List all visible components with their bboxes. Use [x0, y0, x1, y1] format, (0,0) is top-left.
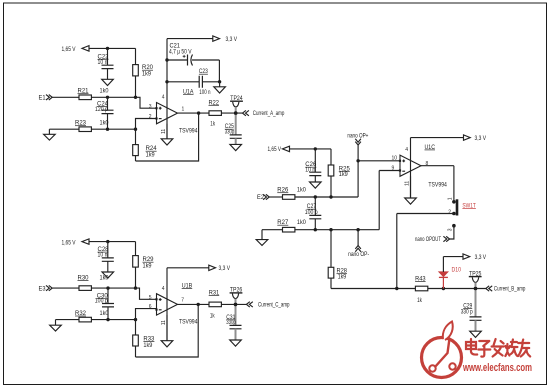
- svg-text:6: 6: [149, 304, 152, 310]
- node junction A1: [106, 47, 109, 50]
- resistor R27: [277, 220, 306, 232]
- capacitor C27: [305, 197, 322, 230]
- resistor R20: [133, 48, 154, 97]
- node junction C5: [329, 228, 332, 231]
- node junction B2: [106, 286, 109, 289]
- capacitor C26: [305, 149, 321, 182]
- wire output U1C to switch: [421, 166, 454, 200]
- capacitor C22: [98, 48, 114, 79]
- supply flag 1,65 V (C): [268, 146, 290, 153]
- connector Current_B_amp: [486, 286, 526, 293]
- svg-text:10: 10: [392, 155, 398, 161]
- svg-text:1k9: 1k9: [339, 172, 349, 178]
- svg-text:1k9: 1k9: [143, 343, 153, 349]
- svg-text:5: 5: [149, 295, 152, 301]
- svg-text:nano OPOUT: nano OPOUT: [415, 237, 441, 243]
- capacitor C31: [226, 304, 241, 340]
- svg-text:TSV994: TSV994: [428, 183, 447, 189]
- svg-text:4: 4: [162, 286, 165, 292]
- wire 1.65V rail B: [89, 241, 136, 243]
- supply flag 3,3 V (B): [209, 265, 230, 272]
- wire R31 to output: [221, 303, 246, 305]
- connector Current_C_amp: [246, 302, 290, 309]
- svg-text:3: 3: [149, 104, 152, 110]
- node junction C2: [314, 195, 317, 198]
- svg-text:1: 1: [182, 107, 185, 113]
- node junction B1: [106, 240, 109, 243]
- svg-text:4,7 µ 50 V: 4,7 µ 50 V: [169, 49, 192, 55]
- svg-text:120 p: 120 p: [95, 107, 109, 113]
- wire switch pin2 feedback: [397, 214, 454, 289]
- connector E3: [39, 285, 53, 292]
- wire gnd to R27: [262, 229, 283, 231]
- connector nano OPOUT: [415, 236, 450, 243]
- node junction B-out: [197, 303, 200, 306]
- wire pin4 / 3.3V rail A: [167, 39, 213, 139]
- svg-text:C21: C21: [170, 43, 181, 49]
- node junction TP25: [474, 287, 477, 290]
- svg-text:4: 4: [405, 147, 408, 153]
- wire R23 to node: [91, 128, 135, 130]
- ground at U1C: [405, 198, 417, 204]
- ground under C22: [102, 79, 114, 85]
- svg-text:3,3 V: 3,3 V: [219, 266, 231, 272]
- node junction C23-right: [218, 80, 221, 83]
- ground at C25: [230, 144, 242, 150]
- node junction A3: [134, 96, 137, 99]
- node junction C4: [314, 228, 317, 231]
- svg-text:1k9: 1k9: [338, 274, 347, 280]
- connector Current_A_amp: [243, 110, 285, 117]
- node junction TP26 dot: [234, 303, 238, 307]
- svg-text:nano OP-: nano OP-: [348, 252, 369, 258]
- svg-text:100 p: 100 p: [305, 210, 319, 216]
- wire E3 to R30: [52, 287, 79, 289]
- resistor R24: [133, 129, 158, 161]
- node junction C6: [356, 228, 359, 231]
- svg-text:100 p: 100 p: [95, 299, 109, 305]
- wire D10 to 3.3V: [443, 257, 463, 272]
- watermark text chinese: [466, 339, 530, 357]
- svg-text:100 n: 100 n: [199, 90, 210, 96]
- resistor R22: [209, 100, 222, 127]
- ground at U1A: [161, 139, 173, 145]
- node junction TP24: [234, 111, 237, 114]
- node junction B4: [106, 318, 109, 321]
- svg-text:3,3 V: 3,3 V: [226, 37, 238, 43]
- svg-text:10 n: 10 n: [98, 253, 108, 259]
- svg-text:1k: 1k: [210, 314, 216, 320]
- wire E2 to R26: [269, 196, 282, 198]
- resistor R29: [133, 242, 154, 289]
- resistor R28: [328, 230, 347, 289]
- switch SW1T: [447, 197, 476, 231]
- node junction C23-left: [165, 80, 168, 83]
- connector E1: [39, 95, 53, 102]
- supply flag 3,3 V (D10): [463, 254, 486, 261]
- test point TP26: [230, 288, 243, 305]
- svg-text:2: 2: [448, 210, 451, 216]
- svg-text:1,65 V: 1,65 V: [62, 240, 76, 246]
- wire riser to pin 10: [358, 160, 400, 162]
- svg-text:E3: E3: [39, 287, 47, 293]
- wire gnd to R23: [49, 128, 79, 130]
- svg-text:Current_A_amp: Current_A_amp: [253, 111, 285, 117]
- capacitor C24: [95, 97, 114, 129]
- node junction A5: [134, 128, 137, 131]
- svg-text:D10: D10: [452, 268, 462, 274]
- node junction TP26: [234, 303, 237, 306]
- wire switch pin3: [449, 226, 454, 239]
- resistor R32: [75, 311, 109, 322]
- svg-text:9: 9: [392, 166, 395, 172]
- svg-text:1k9: 1k9: [143, 264, 153, 270]
- ground under C28: [102, 272, 114, 278]
- svg-text:1,65 V: 1,65 V: [268, 147, 282, 153]
- ground at C29: [470, 331, 482, 337]
- connector nano OP+: [347, 134, 368, 161]
- wire to pin 6: [136, 309, 157, 320]
- resistor R25: [328, 149, 350, 197]
- wire riser to pin 9: [379, 170, 400, 172]
- wire gnd to R32: [56, 319, 80, 321]
- node junction C3: [329, 195, 332, 198]
- capacitor C23: [167, 69, 220, 96]
- svg-text:1k0: 1k0: [297, 188, 307, 194]
- wire pin4 B to 3.3V: [167, 268, 209, 341]
- svg-text:1k: 1k: [210, 122, 216, 128]
- capacitor C21: [167, 43, 219, 82]
- svg-text:TSV994: TSV994: [179, 320, 198, 326]
- connector nano OP-: [348, 230, 369, 258]
- resistor R43: [415, 276, 428, 304]
- node junction C21-left: [165, 58, 168, 61]
- resistor R33: [133, 320, 155, 357]
- ground at C23: [214, 82, 226, 93]
- resistor R21: [78, 89, 110, 100]
- svg-text:330p: 330p: [226, 320, 236, 326]
- svg-text:1k9: 1k9: [142, 72, 152, 78]
- node junction A4: [106, 128, 109, 131]
- op-amp U1B: [155, 284, 198, 326]
- supply flag 3,3 V (A): [213, 36, 237, 43]
- svg-text:3,3 V: 3,3 V: [475, 136, 487, 142]
- supply flag 3,3 V (C): [464, 135, 487, 142]
- wire R27 row to pin9 riser: [295, 171, 379, 230]
- wire E1 to R21: [52, 96, 79, 98]
- svg-text:1k0: 1k0: [100, 89, 110, 95]
- node junction A-out: [197, 111, 200, 114]
- svg-text:1k0: 1k0: [100, 311, 110, 317]
- node junction D10: [442, 287, 445, 290]
- capacitor C30: [95, 288, 114, 320]
- svg-text:4: 4: [162, 95, 165, 101]
- wire R26 to pin10 riser: [295, 161, 358, 197]
- node junction TP25 dot: [474, 287, 478, 291]
- svg-text:Current_C_amp: Current_C_amp: [258, 303, 290, 309]
- svg-text:TSV994: TSV994: [179, 128, 198, 134]
- wire 1.65V rail A: [89, 47, 136, 49]
- wire output U1A: [178, 112, 210, 114]
- svg-text:330p: 330p: [225, 129, 235, 135]
- svg-text:11: 11: [161, 320, 167, 325]
- svg-text:1k: 1k: [417, 298, 423, 304]
- resistor R26: [277, 188, 306, 200]
- svg-text:www.elecfans.com: www.elecfans.com: [462, 362, 532, 374]
- svg-text:1k0: 1k0: [100, 121, 110, 127]
- capacitor C25: [225, 113, 242, 144]
- svg-text:Current_B_amp: Current_B_amp: [494, 287, 526, 293]
- node junction B5: [134, 318, 137, 321]
- wire 1.65V rail C: [290, 148, 332, 150]
- wire pin 11 B: [166, 315, 168, 341]
- test point TP24: [230, 96, 243, 113]
- capacitor C28: [98, 242, 114, 272]
- diode D10: [439, 268, 462, 289]
- ground under C26: [310, 182, 322, 188]
- connector E2: [257, 194, 269, 201]
- wire row3: [331, 288, 415, 290]
- wire R22 to output: [221, 112, 242, 114]
- svg-text:1k9: 1k9: [146, 153, 156, 159]
- svg-text:1,65 V: 1,65 V: [62, 47, 76, 53]
- watermark logo pad 2: [449, 363, 455, 369]
- node junction A2: [106, 96, 109, 99]
- watermark logo circle: [422, 338, 462, 378]
- feedback wire A: [136, 113, 199, 161]
- watermark logo pad 1: [429, 365, 435, 371]
- svg-text:E1: E1: [39, 95, 47, 101]
- svg-text:1k0: 1k0: [297, 220, 307, 226]
- wire pin 11 A: [166, 124, 168, 139]
- op-amp U1A: [155, 89, 198, 134]
- svg-text:1k0: 1k0: [100, 276, 110, 282]
- watermark logo leaf: [443, 322, 453, 341]
- svg-text:11: 11: [404, 181, 410, 186]
- node junction C1: [314, 147, 317, 150]
- wire R43 to output: [428, 288, 486, 290]
- node junction nanoOP+: [356, 159, 359, 162]
- svg-text:10 n: 10 n: [305, 167, 315, 173]
- wire to pin 3: [136, 97, 157, 108]
- node junction C7: [395, 287, 398, 290]
- svg-text:nano OP+: nano OP+: [347, 134, 368, 140]
- resistor R31: [209, 290, 222, 319]
- wire output U1B: [178, 303, 210, 305]
- op-amp U1C: [399, 145, 448, 189]
- feedback wire B: [136, 304, 199, 357]
- svg-text:10 n: 10 n: [98, 60, 108, 66]
- ground at R23 input: [44, 129, 56, 140]
- wire R30 to node: [91, 287, 135, 289]
- capacitor C29: [461, 289, 482, 332]
- wire to pin 5: [136, 288, 157, 299]
- resistor R23: [75, 121, 109, 132]
- svg-text:7: 7: [181, 298, 184, 304]
- supply flag 1,65 V (B): [62, 239, 90, 246]
- svg-text:1: 1: [447, 197, 453, 200]
- ground at R32 input: [50, 320, 62, 331]
- ground at U1B: [161, 341, 173, 347]
- wire R21 to node: [91, 96, 135, 98]
- svg-text:330 p: 330 p: [461, 310, 474, 316]
- test point TP25: [469, 271, 482, 288]
- resistor R30: [78, 276, 110, 291]
- wire pin 11 C: [410, 176, 412, 198]
- node junction TP24 dot: [234, 111, 238, 115]
- wire to pin 2: [136, 119, 157, 130]
- node junction B3: [134, 286, 137, 289]
- svg-text:3,3 V: 3,3 V: [475, 255, 487, 261]
- wire R32 to node: [91, 319, 135, 321]
- svg-text:2: 2: [149, 114, 152, 120]
- watermark logo trace: [435, 339, 450, 368]
- ground at R27 input: [256, 230, 268, 246]
- svg-text:3: 3: [447, 228, 453, 231]
- supply flag 1,65 V (A): [62, 46, 90, 53]
- svg-text:11: 11: [161, 129, 167, 134]
- ground at C31: [230, 340, 242, 346]
- wire pin4 C to 3.3V: [411, 138, 464, 198]
